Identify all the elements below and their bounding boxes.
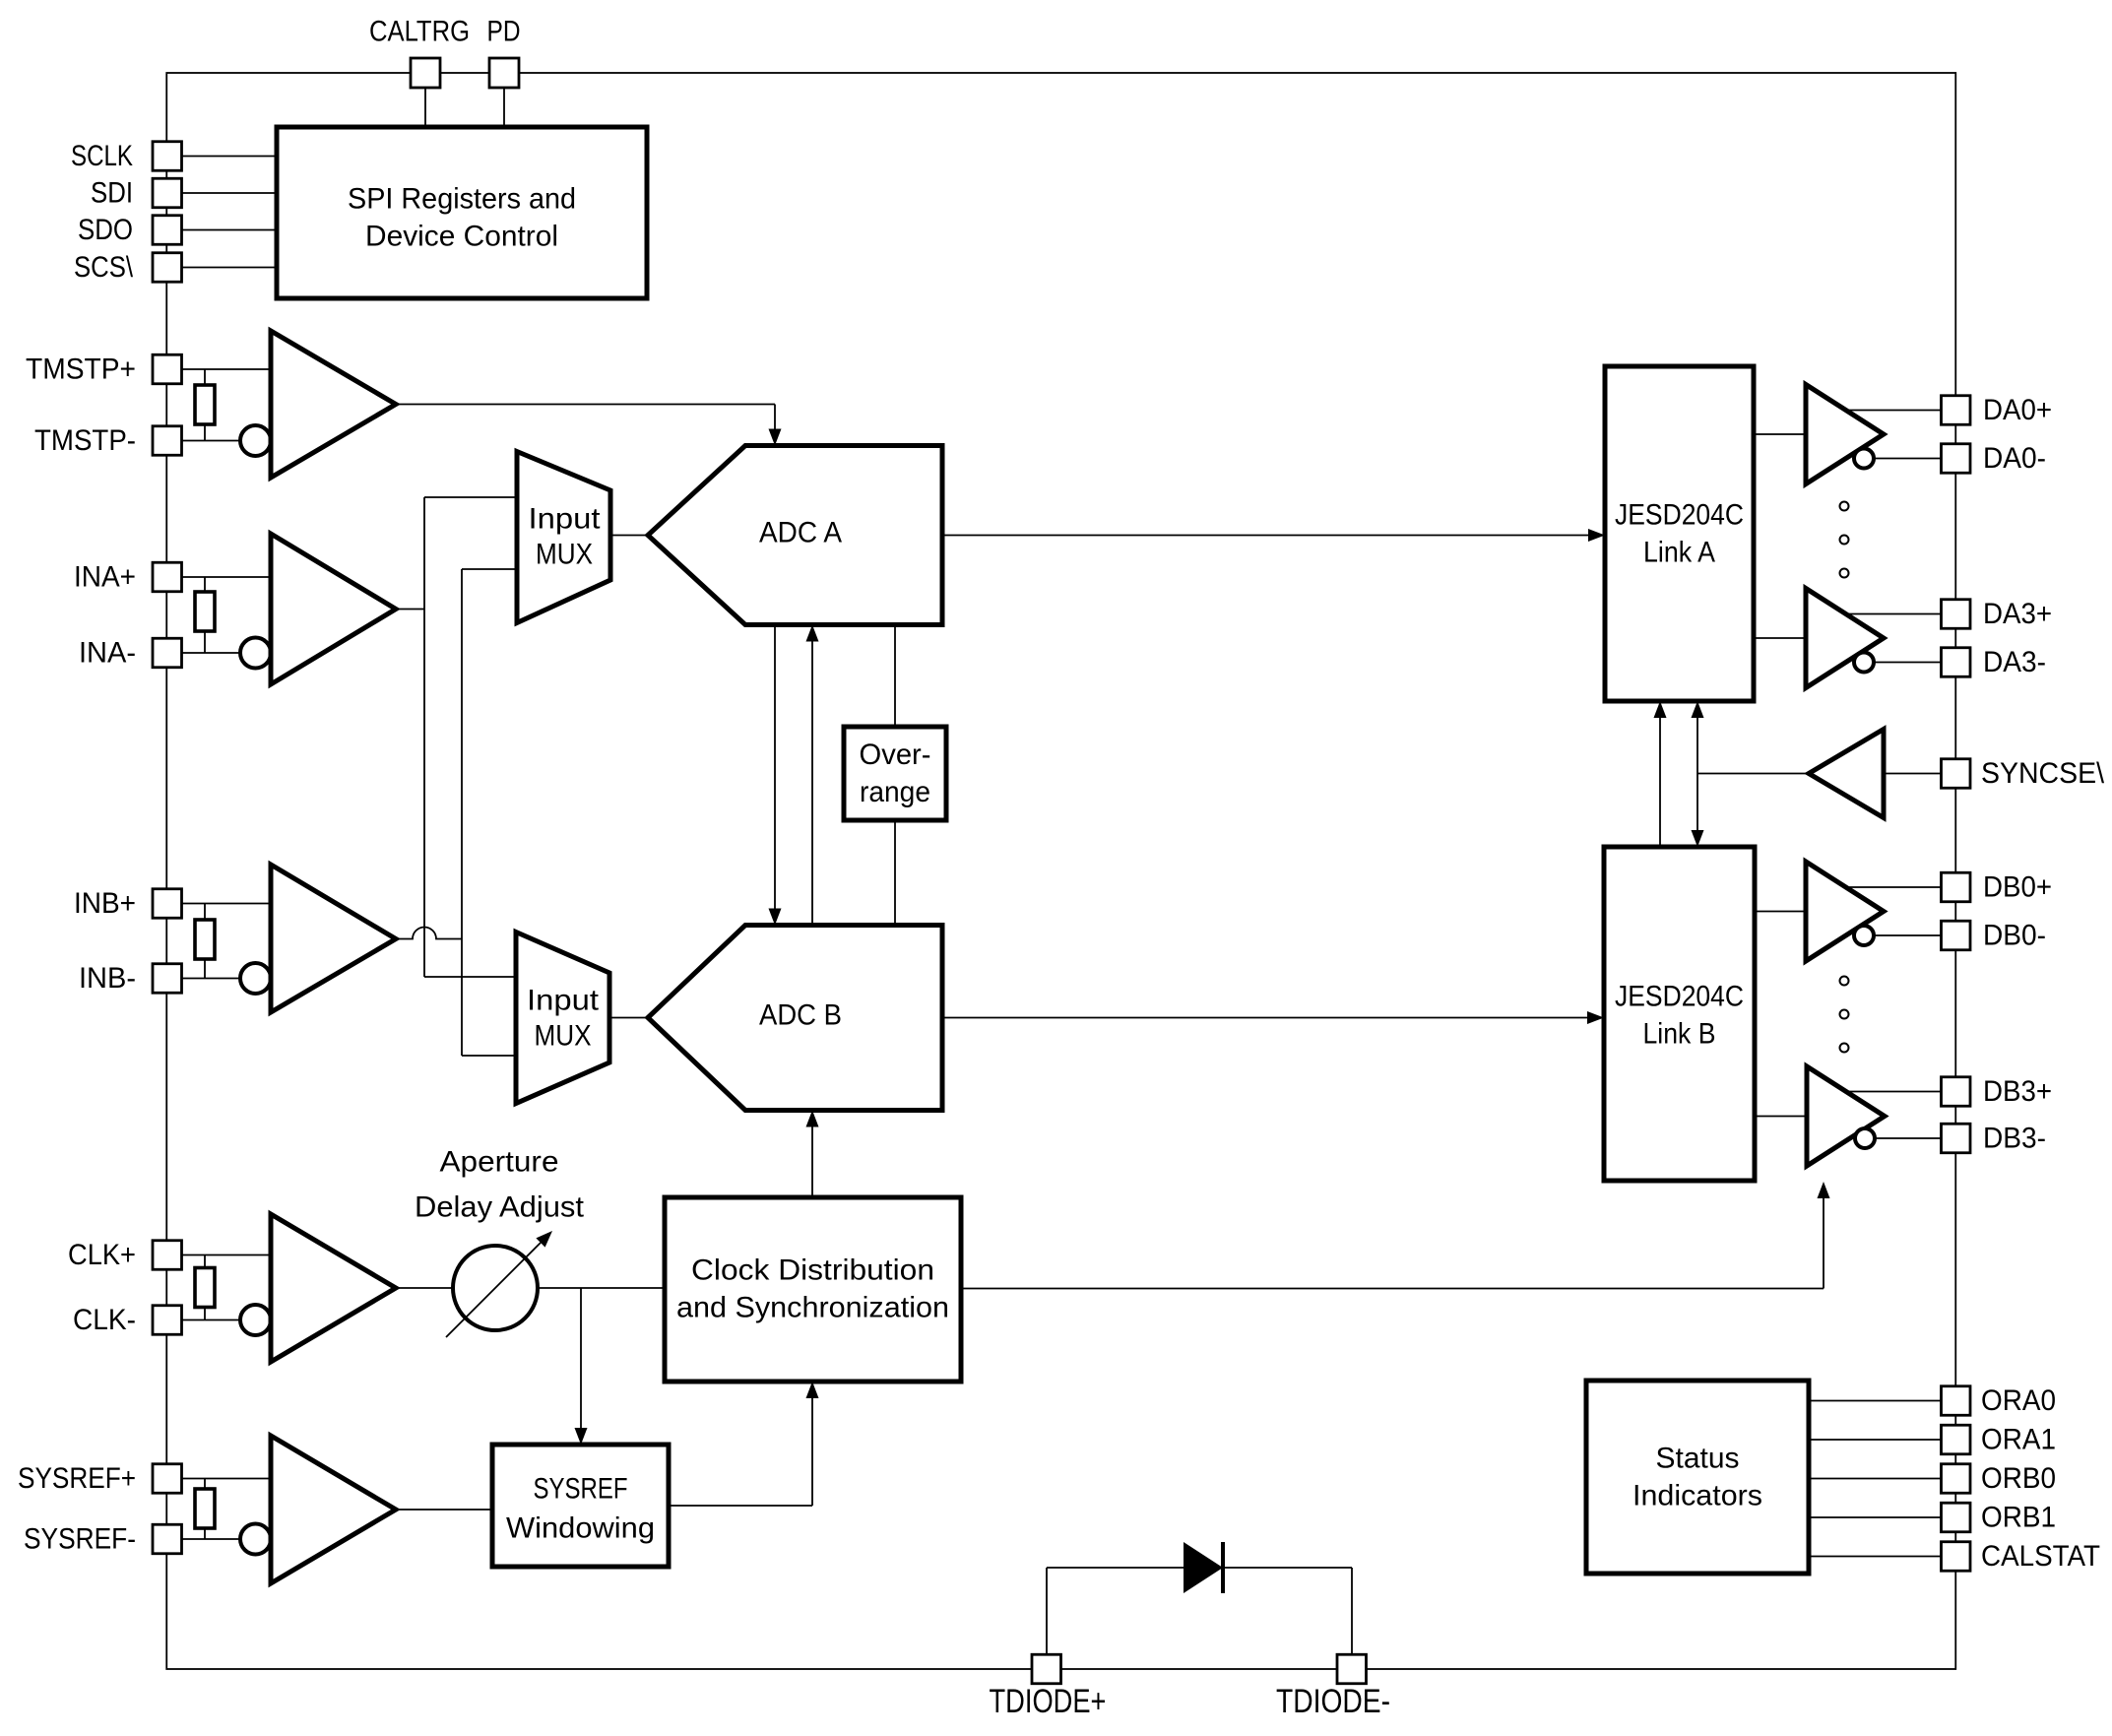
pin ORA0	[1942, 1386, 1971, 1416]
wire INB- input	[182, 978, 241, 980]
label DB3+	[1983, 1075, 2052, 1108]
svg-text:SCS\: SCS\	[74, 251, 134, 284]
svg-text:MUX: MUX	[536, 539, 593, 571]
wire TMSTP buffer to ADC A timestamp input	[396, 405, 782, 446]
inverting bubble INA buffer	[240, 638, 271, 669]
svg-text:Windowing: Windowing	[506, 1512, 655, 1545]
resistor TMSTP termination	[195, 385, 215, 424]
wire TDIODE+ to diode anode	[1047, 1568, 1184, 1654]
svg-text:Link A: Link A	[1643, 537, 1715, 569]
wire CLK+ input	[182, 1254, 272, 1256]
wire INB+ input	[182, 903, 272, 905]
label SCLK	[71, 140, 133, 172]
pin SYSREF+	[153, 1464, 182, 1494]
svg-text:DA3-: DA3-	[1983, 646, 2046, 678]
wire ORA0 output	[1809, 1400, 1942, 1402]
label SDO	[78, 214, 133, 246]
label DA3+	[1983, 598, 2052, 630]
wire serializer clock from clock distribution	[961, 1182, 1830, 1289]
label DA0-	[1983, 442, 2046, 475]
wire DB3+ output	[1847, 1091, 1942, 1093]
wire SCLK to SPI block	[182, 156, 278, 158]
wire DB0+ output	[1846, 886, 1942, 888]
pin DB0+	[1942, 872, 1971, 902]
label TMSTP-	[34, 424, 136, 457]
pin SDO	[153, 216, 182, 245]
svg-text:SYSREF-: SYSREF-	[24, 1523, 136, 1556]
driver DB3 output buffer	[1807, 1066, 1885, 1166]
inverting bubble SYSREF buffer	[240, 1524, 271, 1555]
wire INA net to MUX B upper input	[424, 976, 516, 978]
chip boundary border	[166, 73, 1955, 1669]
wire CALTRG stub	[424, 88, 426, 127]
svg-text:DB3-: DB3-	[1983, 1123, 2046, 1155]
svg-text:INA-: INA-	[79, 637, 136, 670]
resistor SYSREF termination	[195, 1489, 215, 1528]
block Status Indicators	[1586, 1381, 1809, 1574]
label CLK+	[68, 1239, 136, 1271]
pin CALTRG	[411, 58, 440, 88]
pin DA0+	[1942, 396, 1971, 425]
wire ORB1 output	[1809, 1516, 1942, 1518]
svg-text:INB+: INB+	[74, 887, 136, 920]
resistor CLK termination	[195, 1268, 215, 1308]
wire CALSTAT output	[1809, 1556, 1942, 1558]
mux Input MUX A	[517, 452, 610, 623]
pin DB0-	[1942, 921, 1971, 950]
ellipsis dots lane B	[1840, 977, 1849, 1053]
pin DA0-	[1942, 444, 1971, 474]
label DB0+	[1983, 871, 2052, 904]
svg-text:DB3+: DB3+	[1983, 1075, 2052, 1108]
label ORA1	[1981, 1424, 2056, 1456]
svg-text:Aperture: Aperture	[440, 1146, 559, 1179]
label DA3-	[1983, 646, 2046, 678]
svg-text:Link B: Link B	[1643, 1018, 1716, 1051]
svg-text:JESD204C: JESD204C	[1615, 981, 1744, 1013]
pin DA3-	[1942, 648, 1971, 677]
svg-text:CALSTAT: CALSTAT	[1981, 1540, 2100, 1573]
label SDI	[91, 177, 133, 210]
wire INA- input	[182, 652, 241, 654]
svg-text:Delay Adjust: Delay Adjust	[415, 1191, 585, 1224]
wire CLK- input	[182, 1319, 241, 1321]
pin SCS	[153, 253, 182, 283]
inverting bubble DB0-	[1854, 926, 1874, 945]
pin SDI	[153, 178, 182, 208]
svg-text:ORB1: ORB1	[1981, 1502, 2056, 1534]
svg-text:DA3+: DA3+	[1983, 598, 2052, 630]
svg-text:ADC A: ADC A	[759, 517, 842, 549]
wire SDI to SPI block	[182, 192, 278, 194]
wire MUX A to ADC A	[610, 535, 648, 537]
label INB+	[74, 887, 136, 920]
wire INA buffer output to node	[396, 609, 424, 611]
label DA0+	[1983, 394, 2052, 426]
mux Input MUX B	[516, 932, 609, 1104]
amplifier CLK input buffer	[271, 1214, 396, 1362]
svg-text:ADC B: ADC B	[759, 999, 842, 1032]
wire Link B to DB3 driver	[1755, 1116, 1807, 1118]
wire SYSREF windowing to clock distribution	[669, 1382, 819, 1506]
adc ADC A	[648, 446, 942, 625]
block SPI Registers and Device Control	[277, 127, 647, 298]
pin SCLK	[153, 142, 182, 171]
svg-text:INB-: INB-	[79, 962, 136, 995]
wire Over-range to ADC B	[894, 820, 896, 926]
pin CLK+	[153, 1241, 182, 1270]
label SYNCSE\	[1981, 757, 2105, 790]
wire MUX B to ADC B	[609, 1017, 648, 1019]
label TDIODE+	[990, 1683, 1107, 1720]
wire DA0- output	[1874, 458, 1942, 460]
svg-text:SDO: SDO	[78, 214, 133, 246]
amplifier INA input buffer	[271, 534, 396, 684]
wire DA3- output	[1874, 662, 1942, 664]
wire INA net to MUX A upper input	[424, 496, 517, 498]
wire clock from distribution up to ADC B	[806, 1111, 819, 1198]
wire PD stub	[503, 88, 505, 127]
pin DB3+	[1942, 1077, 1971, 1107]
label INA-	[79, 637, 136, 670]
pin INA-	[153, 638, 182, 668]
svg-text:Indicators: Indicators	[1632, 1480, 1762, 1512]
wire INB net vertical	[461, 569, 463, 1056]
wire clock node down to SYSREF windowing	[575, 1288, 588, 1445]
wire INA+ input	[182, 576, 272, 578]
svg-text:range: range	[860, 776, 930, 808]
wire TMSTP- input	[182, 440, 241, 442]
wire SDO to SPI block	[182, 229, 278, 231]
pin DA3+	[1942, 600, 1971, 629]
inverting bubble DA3-	[1854, 653, 1874, 673]
wire ORA1 output	[1809, 1439, 1942, 1441]
pin CLK-	[153, 1306, 182, 1335]
variable delay aperture adjust	[446, 1231, 552, 1337]
wire SYSREF- input	[182, 1538, 241, 1540]
ellipsis dots lane A	[1840, 502, 1849, 578]
svg-text:SPI Registers and: SPI Registers and	[348, 183, 576, 216]
svg-text:CALTRG: CALTRG	[369, 16, 470, 48]
amplifier TMSTP input buffer	[271, 331, 396, 478]
block JESD204C Link A	[1605, 366, 1754, 701]
wire ORB0 output	[1809, 1478, 1942, 1480]
svg-text:CLK+: CLK+	[68, 1239, 136, 1271]
inverting bubble INB buffer	[240, 963, 271, 994]
wire INA net vertical	[423, 497, 425, 977]
svg-text:TDIODE+: TDIODE+	[990, 1683, 1107, 1720]
svg-text:SYSREF: SYSREF	[534, 1473, 628, 1506]
label ORA0	[1981, 1384, 2056, 1417]
svg-text:and Synchronization: and Synchronization	[676, 1292, 949, 1324]
svg-text:DB0-: DB0-	[1983, 920, 2046, 952]
driver DA3 output buffer	[1806, 589, 1884, 688]
label CLK-	[73, 1304, 136, 1336]
svg-text:PD: PD	[487, 16, 521, 48]
label Aperture Delay Adjust	[415, 1146, 585, 1224]
amplifier SYSREF input buffer	[271, 1436, 396, 1583]
pin ORA1	[1942, 1425, 1971, 1454]
svg-text:DA0+: DA0+	[1983, 394, 2052, 426]
label ORB0	[1981, 1462, 2056, 1495]
block JESD204C Link B	[1604, 847, 1755, 1181]
wire INB net to MUX A lower input	[462, 568, 517, 570]
wire ADC B output to JESD204C Link B	[942, 1011, 1604, 1024]
svg-text:Clock Distribution: Clock Distribution	[691, 1254, 934, 1287]
wire INB net to MUX B lower input	[462, 1055, 516, 1057]
wire sync Link B to Link A	[1654, 701, 1667, 847]
block Over-range	[844, 727, 946, 820]
label CALSTAT	[1981, 1540, 2100, 1573]
driver DB0 output buffer	[1806, 862, 1884, 961]
resistor INA termination	[195, 592, 215, 631]
wire TMSTP termination stubs	[204, 369, 206, 441]
wire Link A to DA3 driver	[1754, 637, 1806, 639]
svg-text:SYSREF+: SYSREF+	[18, 1462, 136, 1495]
pin TMSTP+	[153, 354, 182, 384]
svg-text:SCLK: SCLK	[71, 140, 133, 172]
wire CLK termination stubs	[204, 1255, 206, 1320]
label SCS\	[74, 251, 134, 284]
wire DB3- output	[1875, 1137, 1942, 1139]
svg-text:ORA0: ORA0	[1981, 1384, 2056, 1417]
svg-text:SYNCSE\: SYNCSE\	[1981, 757, 2105, 790]
pin PD	[489, 58, 519, 88]
svg-text:Input: Input	[529, 503, 602, 536]
wire ADC A to Over-range	[894, 625, 896, 728]
wire INB termination stubs	[204, 904, 206, 979]
pin SYSREF-	[153, 1524, 182, 1554]
label DB0-	[1983, 920, 2046, 952]
wire ADC A to ADC B link arrow	[769, 625, 782, 926]
wire SYNCSE pin to buffer	[1884, 773, 1942, 775]
wire diode cathode to TDIODE-	[1223, 1568, 1352, 1654]
pin TMSTP-	[153, 426, 182, 456]
label CALTRG	[369, 16, 470, 48]
wire INB buffer output with crossover hop	[396, 928, 462, 939]
label TDIODE-	[1276, 1683, 1390, 1720]
wire TMSTP+ input	[182, 368, 272, 370]
wire SYSREF termination stubs	[204, 1479, 206, 1540]
wire ADC A output to JESD204C Link A	[942, 529, 1605, 542]
label PD	[487, 16, 521, 48]
inverting bubble TMSTP buffer	[240, 425, 271, 456]
wire SYSREF+ input	[182, 1478, 272, 1480]
label DB3-	[1983, 1123, 2046, 1155]
pin ORB1	[1942, 1503, 1971, 1532]
inverting bubble DB3-	[1855, 1128, 1875, 1148]
label SYSREF-	[24, 1523, 136, 1556]
svg-text:Input: Input	[527, 985, 600, 1017]
buffer SYNCSE receiver	[1809, 730, 1884, 818]
label ORB1	[1981, 1502, 2056, 1534]
svg-text:DA0-: DA0-	[1983, 442, 2046, 475]
svg-text:TMSTP-: TMSTP-	[34, 424, 136, 457]
wire Link B to DB0 driver	[1755, 911, 1806, 913]
inverting bubble DA0-	[1854, 449, 1874, 469]
pin SYNCSE\	[1942, 759, 1971, 789]
pin TDIODE-	[1337, 1654, 1367, 1684]
diode thermal TDIODE	[1184, 1542, 1223, 1593]
svg-text:SDI: SDI	[91, 177, 133, 210]
wire INA termination stubs	[204, 577, 206, 653]
block SYSREF Windowing	[492, 1445, 669, 1567]
wire Link A to DA0 driver	[1754, 433, 1806, 435]
wire SCS to SPI block	[182, 267, 278, 269]
pin INB-	[153, 964, 182, 994]
svg-text:TMSTP+: TMSTP+	[26, 354, 136, 386]
driver DA0 output buffer	[1806, 385, 1884, 484]
wire CLK buffer to aperture delay	[396, 1287, 453, 1289]
svg-text:MUX: MUX	[535, 1020, 592, 1053]
svg-text:JESD204C: JESD204C	[1615, 499, 1744, 532]
wire clock through ADC B up to ADC A	[806, 625, 819, 926]
inverting bubble CLK buffer	[240, 1305, 271, 1335]
svg-text:Over-: Over-	[860, 739, 931, 771]
amplifier INB input buffer	[271, 865, 396, 1012]
pin TDIODE+	[1032, 1654, 1061, 1684]
label INA+	[74, 561, 136, 594]
svg-text:INA+: INA+	[74, 561, 136, 594]
svg-text:Device Control: Device Control	[365, 221, 558, 253]
wire aperture delay to clock distribution	[538, 1287, 665, 1289]
svg-text:DB0+: DB0+	[1983, 871, 2052, 904]
wire DB0- output	[1874, 934, 1942, 936]
svg-text:Status: Status	[1656, 1443, 1740, 1475]
pin ORB0	[1942, 1464, 1971, 1494]
label INB-	[79, 962, 136, 995]
resistor INB termination	[195, 920, 215, 959]
pin INA+	[153, 562, 182, 592]
label TMSTP+	[26, 354, 136, 386]
wire DA3+ output	[1846, 613, 1942, 615]
svg-text:TDIODE-: TDIODE-	[1276, 1683, 1390, 1720]
adc ADC B	[648, 926, 942, 1111]
svg-text:ORB0: ORB0	[1981, 1462, 2056, 1495]
label SYSREF+	[18, 1462, 136, 1495]
block Clock Distribution and Synchronization	[665, 1197, 961, 1382]
pin INB+	[153, 889, 182, 919]
wire sync bidirectional Link A Link B	[1692, 701, 1704, 847]
wire DA0+ output	[1846, 410, 1942, 412]
wire SYSREF buffer to windowing	[396, 1509, 492, 1511]
pin CALSTAT	[1942, 1542, 1971, 1572]
pin DB3-	[1942, 1124, 1971, 1153]
wire SYNCSE to sync net	[1697, 773, 1809, 775]
svg-text:CLK-: CLK-	[73, 1304, 136, 1336]
svg-text:ORA1: ORA1	[1981, 1424, 2056, 1456]
